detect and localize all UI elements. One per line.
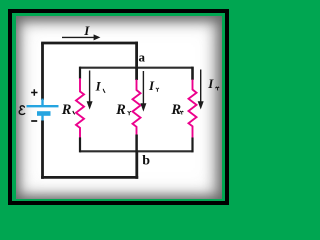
battery - terminal label <box>31 120 37 122</box>
svg-text:R: R <box>115 102 126 118</box>
wire stub from branch 2 to node b <box>135 135 138 153</box>
battery stub below negative plate <box>41 116 43 122</box>
battery negative plate (short thick) <box>37 111 51 116</box>
label R3 <box>170 102 183 118</box>
current arrow I3 (down branch 3) <box>198 70 204 110</box>
label R1 <box>61 102 75 118</box>
svg-text:I: I <box>207 76 214 91</box>
wire stub from node a into branch 2 <box>135 67 138 80</box>
svg-text:I: I <box>95 78 102 93</box>
label R2 <box>115 102 131 118</box>
svg-text:b: b <box>142 154 150 169</box>
current arrow I (top, pointing right) <box>62 34 100 40</box>
battery stub above positive plate <box>41 99 43 106</box>
wire from battery positive terminal up the left side <box>41 43 44 100</box>
wire feeding down into node a <box>135 42 138 69</box>
EMF label epsilon <box>19 106 25 115</box>
battery + terminal label <box>31 89 37 95</box>
wire stub from top rail into branch 1 <box>79 67 81 79</box>
wire rising from bottom run to node b <box>135 151 138 179</box>
resistor R2 zigzag <box>133 80 141 135</box>
battery positive plate (long) <box>27 105 59 107</box>
wire bottom horizontal run <box>41 176 138 179</box>
svg-text:R: R <box>61 102 72 118</box>
wire bottom rail of parallel section <box>80 150 193 152</box>
svg-text:R: R <box>170 102 181 118</box>
current arrow I2 (down branch 2) <box>140 71 146 112</box>
svg-text:I: I <box>83 23 90 38</box>
wire top rail of parallel section <box>80 67 193 69</box>
label I2 <box>148 78 159 93</box>
wire stub from branch 3 to bottom rail <box>191 138 193 153</box>
wire from battery negative terminal down the left side <box>41 121 44 179</box>
current arrow I1 (down branch 1) <box>87 71 93 110</box>
svg-text:I: I <box>148 78 155 93</box>
wire stub from branch 1 to bottom rail <box>79 137 81 152</box>
svg-text:a: a <box>138 49 145 64</box>
wire stub from top rail into branch 3 <box>191 67 194 80</box>
label I1 <box>95 78 105 93</box>
resistor R3 zigzag <box>189 80 197 138</box>
resistor R1 zigzag <box>76 78 84 138</box>
wire top horizontal run <box>41 42 138 45</box>
label I3 <box>207 76 219 91</box>
